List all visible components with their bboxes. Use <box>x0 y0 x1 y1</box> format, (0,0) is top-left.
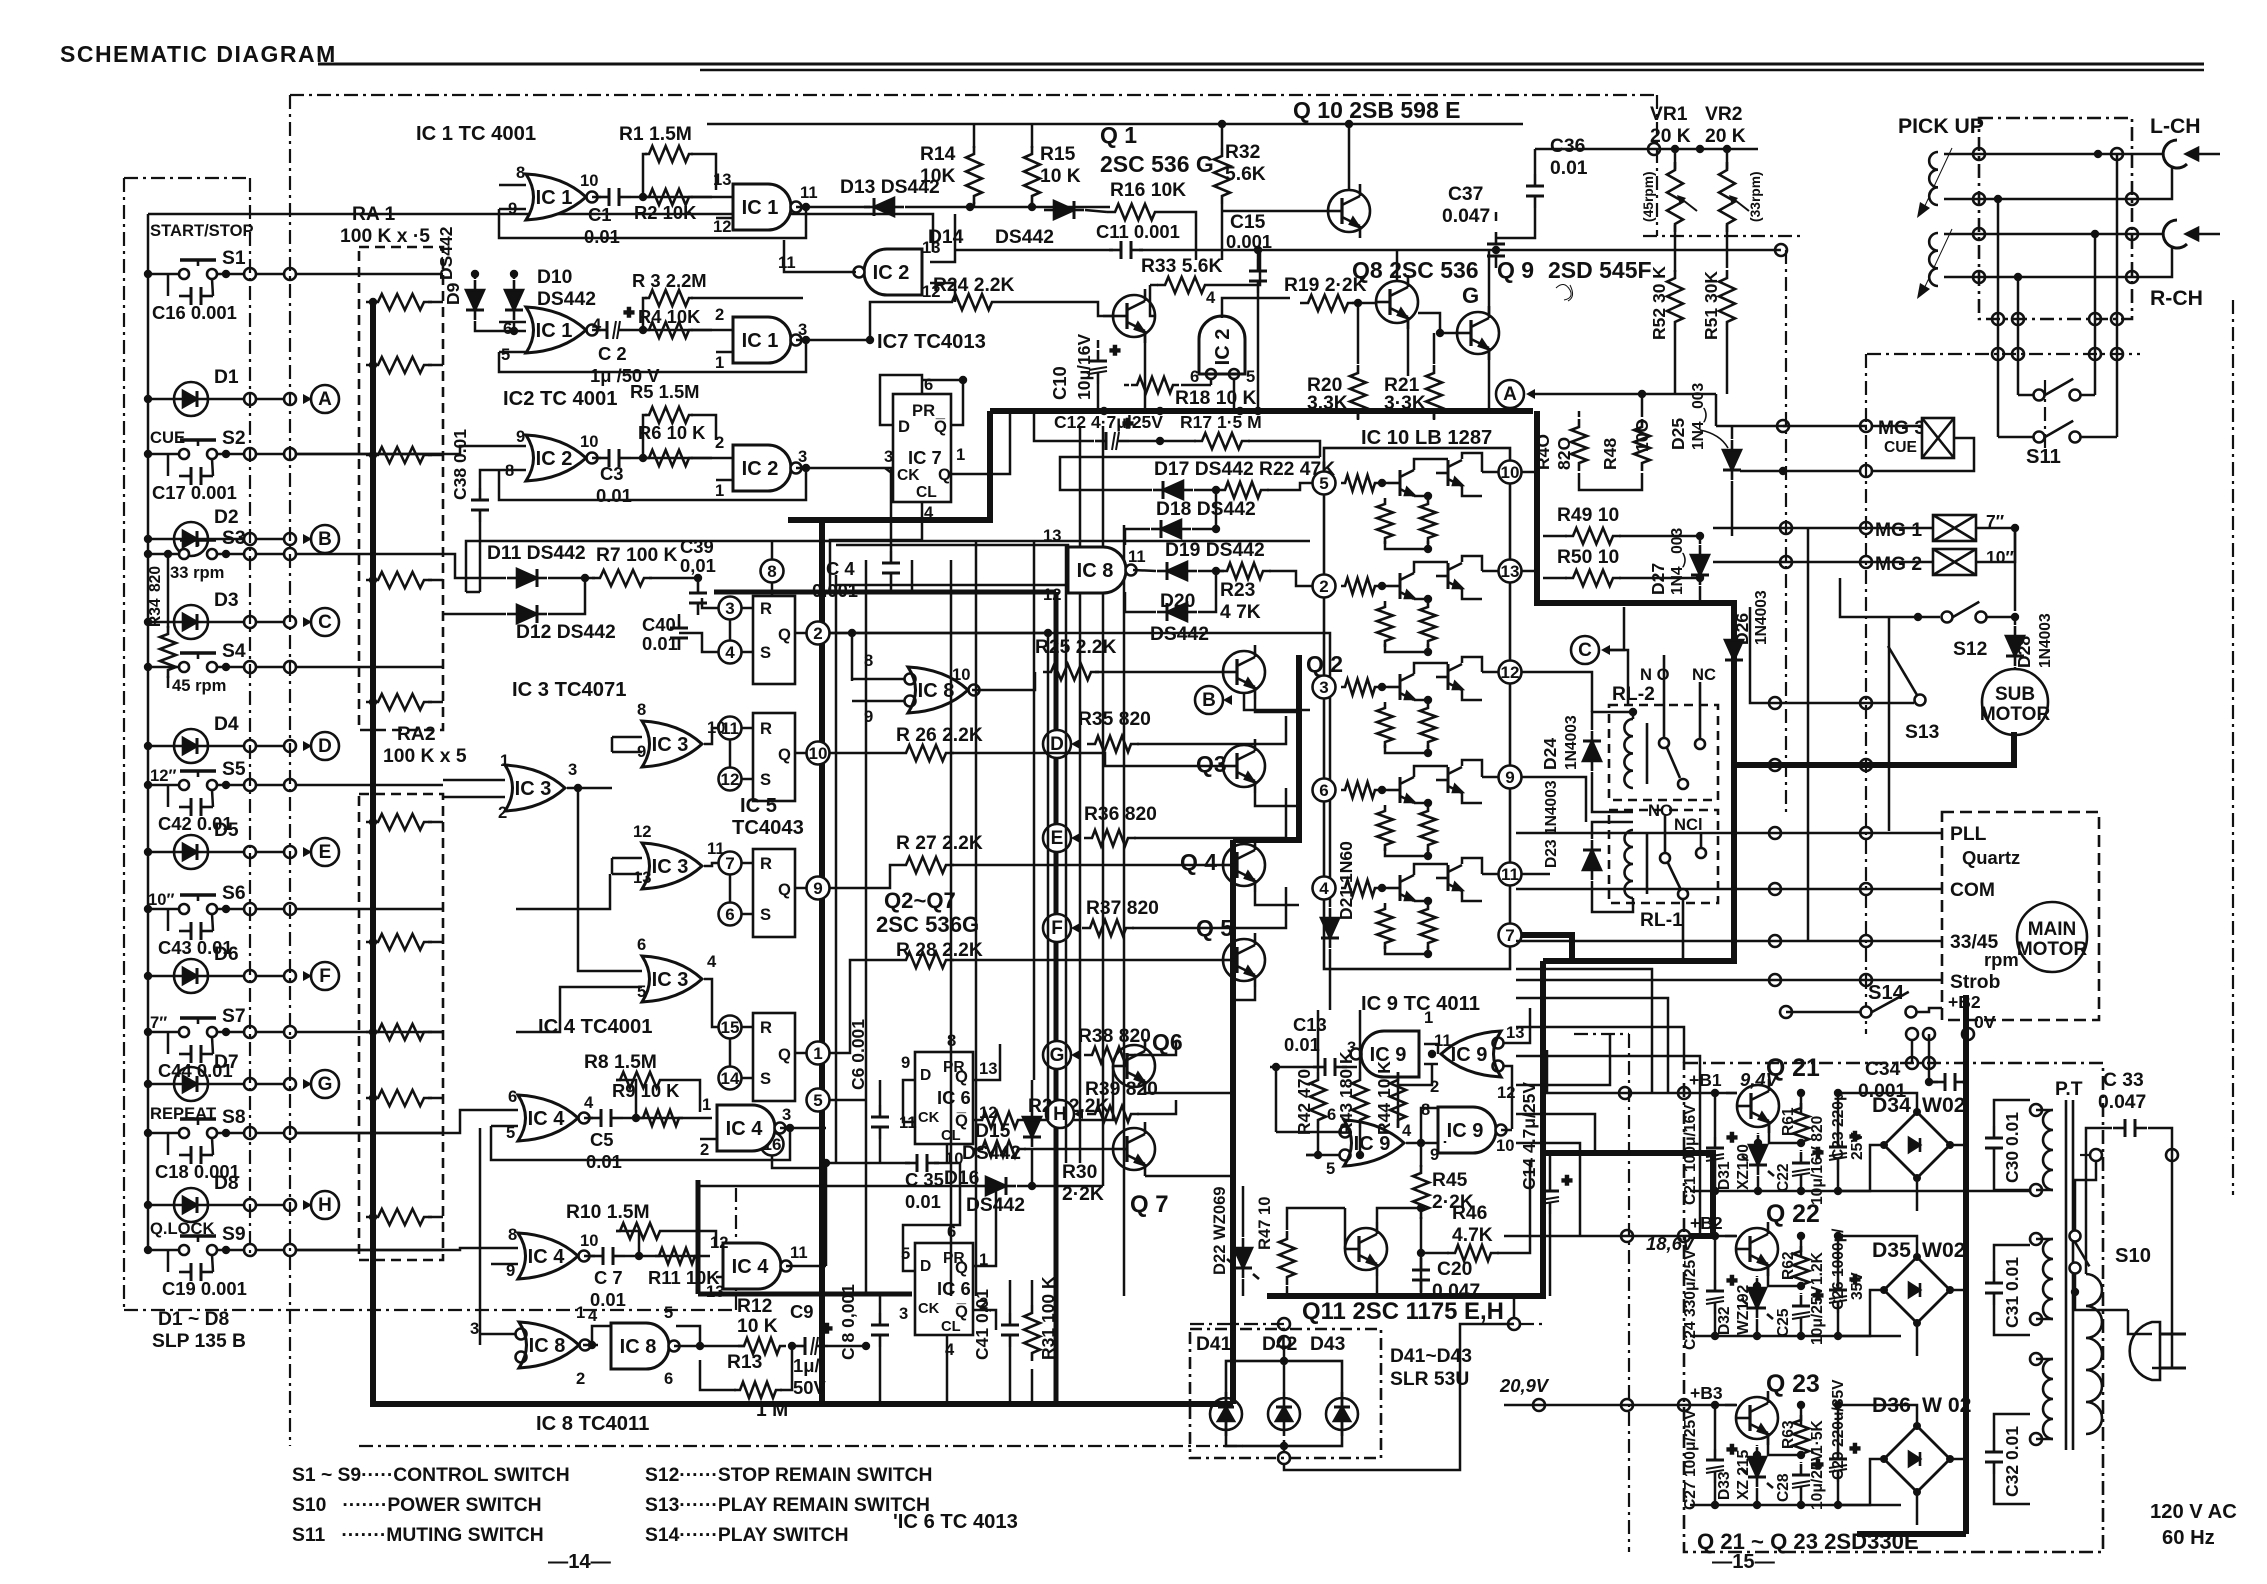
resistor R49 10 <box>1565 528 1621 544</box>
capacitor C37 0.047 <box>1487 232 1505 268</box>
svg-text:S7: S7 <box>222 1006 246 1027</box>
wire <box>1756 1276 1759 1277</box>
wire <box>1134 788 1286 838</box>
svg-text:DS442: DS442 <box>537 289 596 310</box>
wire <box>256 1031 284 1034</box>
wire from IC5 pin1 <box>830 960 898 1053</box>
wire <box>296 1249 443 1252</box>
svg-text:6: 6 <box>508 1087 517 1106</box>
wire (Q3 emitter) <box>1255 793 1299 806</box>
resistor R15 10K <box>1024 146 1040 204</box>
svg-text:10μ/16V 820: 10μ/16V 820 <box>1809 1115 1826 1205</box>
wire <box>1017 1185 1032 1188</box>
svg-text:3: 3 <box>1319 678 1328 697</box>
NAND gate IC1b <box>733 184 802 230</box>
pickup coil L <box>1929 152 1938 205</box>
thick bus (vertical) <box>819 520 825 1404</box>
svg-text:D9: D9 <box>443 282 463 305</box>
svg-text:CL: CL <box>941 1319 961 1335</box>
svg-text:6: 6 <box>1190 367 1199 386</box>
zener D31 <box>1749 1135 1767 1175</box>
wire <box>513 274 516 279</box>
switch S13 <box>1888 646 1926 706</box>
svg-text:D3: D3 <box>214 590 239 611</box>
diode D7 <box>166 1067 216 1101</box>
NOR gate IC8c <box>519 1322 591 1368</box>
svg-text:C5: C5 <box>590 1129 614 1150</box>
wire (vertical) <box>975 540 978 1296</box>
wire <box>1198 571 1216 612</box>
svg-text:10μ/25V: 10μ/25V <box>1809 1450 1826 1510</box>
svg-text:C27 100μ/25V: C27 100μ/25V <box>1682 1409 1699 1510</box>
wire <box>1248 441 1320 457</box>
wire <box>1406 1142 1445 1145</box>
NAND gate IC9d <box>1438 1107 1507 1153</box>
LED D43 <box>1326 1392 1358 1436</box>
svg-text:COM: COM <box>1950 880 1995 901</box>
svg-text:R31 100 K: R31 100 K <box>1038 1276 1058 1360</box>
wire <box>216 851 245 854</box>
svg-text:F: F <box>1051 918 1063 939</box>
svg-text:12: 12 <box>1501 663 1520 682</box>
resistor R4 10K <box>645 322 693 338</box>
wire <box>216 621 245 624</box>
wire <box>480 470 499 488</box>
wire <box>212 1037 213 1054</box>
svg-text:15: 15 <box>721 1018 740 1037</box>
wire (transformer tap) <box>2036 1189 2053 1192</box>
resistor R10 1.5M <box>616 1223 664 1239</box>
svg-text:G: G <box>318 1074 333 1095</box>
wire <box>1714 1483 1717 1505</box>
wire <box>479 522 482 592</box>
svg-text:XZ100: XZ100 <box>1735 1144 1752 1190</box>
svg-text:R12: R12 <box>737 1296 772 1317</box>
wire <box>1407 321 1410 376</box>
boundary <box>1574 1033 1629 1035</box>
wire <box>704 979 718 1027</box>
svg-text:C20: C20 <box>1437 1259 1472 1280</box>
wire <box>148 398 166 401</box>
junction <box>244 533 256 545</box>
junction <box>284 1026 296 1038</box>
junction <box>2012 348 2024 360</box>
svg-text:—15—: —15— <box>1712 1551 1776 1573</box>
svg-text:R6 10 K: R6 10 K <box>638 422 706 443</box>
wire <box>217 666 245 669</box>
wire <box>217 453 245 456</box>
svg-text:CK: CK <box>918 1301 940 1317</box>
wire <box>1221 124 1224 148</box>
wire <box>1592 822 1633 839</box>
jack R-CH <box>2163 220 2220 248</box>
NOR gate IC4a <box>518 1095 590 1141</box>
svg-text:8: 8 <box>767 562 776 581</box>
wire pin9 <box>499 208 526 211</box>
svg-text:1N4003: 1N4003 <box>2037 613 2054 668</box>
junction <box>1678 1399 1690 1411</box>
svg-text:Q: Q <box>778 745 791 764</box>
resistor RA1-3 100K <box>370 447 432 463</box>
wire <box>1726 225 1729 268</box>
boundary right <box>2232 300 2234 1195</box>
diode D28 1N4003 <box>2006 626 2024 666</box>
boundary <box>1785 250 1787 812</box>
svg-text:D18 DS442: D18 DS442 <box>1156 499 1256 520</box>
wire <box>691 154 716 190</box>
relay contact RL-2 NC <box>1678 682 1705 789</box>
svg-text:11: 11 <box>1128 547 1146 566</box>
wire (Q5 emitter) <box>1233 987 1255 1000</box>
resistor R50 10 <box>1565 570 1621 586</box>
wire (+B rail) <box>1690 1404 1737 1407</box>
svg-text:1: 1 <box>813 1044 822 1063</box>
resistor (IC10 internal) <box>1377 805 1393 851</box>
svg-text:D8: D8 <box>214 1173 239 1194</box>
wire <box>1382 686 1388 689</box>
wire <box>584 1255 595 1258</box>
svg-text:S: S <box>760 905 771 924</box>
svg-text:Q̅: Q̅ <box>934 417 947 436</box>
switch column rail <box>147 214 150 1250</box>
wire <box>256 1083 284 1086</box>
svg-text:+: + <box>624 303 634 322</box>
wire (cell bottom) <box>1690 1190 1901 1193</box>
wire <box>148 975 166 978</box>
diode D25 1N4003 <box>1723 440 1741 480</box>
svg-text:IC 3 TC4071: IC 3 TC4071 <box>512 679 626 701</box>
wire <box>1137 716 1286 744</box>
wire <box>1031 1080 1034 1106</box>
svg-text:7: 7 <box>1505 926 1514 945</box>
wire <box>1060 457 1320 490</box>
junction <box>1777 420 1789 432</box>
thick bus <box>1233 655 1299 840</box>
wire <box>795 752 807 755</box>
wire IC6b Q <box>973 1186 996 1266</box>
wire <box>1194 489 1219 492</box>
node B <box>1195 686 1223 714</box>
resistor R37 820 <box>1082 920 1134 936</box>
svg-text:IC 6: IC 6 <box>937 1278 971 1299</box>
wire <box>1420 1143 1423 1167</box>
IC10 pin 12 <box>1499 661 1522 684</box>
svg-text:R48: R48 <box>1600 438 1620 470</box>
svg-text:R: R <box>760 599 772 618</box>
wire <box>1385 848 1428 856</box>
boundary (dash-dot) <box>124 1309 736 1311</box>
svg-text:0.01: 0.01 <box>1550 158 1588 179</box>
junction <box>244 268 256 280</box>
svg-text:ʹIC 6 TC 4013: ʹIC 6 TC 4013 <box>893 1511 1018 1533</box>
wire <box>1398 1064 1432 1128</box>
wire <box>2128 1310 2152 1334</box>
resistor (IC10 internal) <box>1341 578 1379 594</box>
svg-text:R8 1.5M: R8 1.5M <box>584 1052 657 1073</box>
junction <box>1780 522 1792 534</box>
svg-text:S4: S4 <box>222 641 246 662</box>
svg-text:C31 0.01: C31 0.01 <box>2002 1257 2022 1328</box>
wire <box>1800 1293 1803 1294</box>
wire <box>466 591 480 594</box>
svg-text:R15: R15 <box>1040 144 1076 165</box>
wire <box>1342 1066 1357 1069</box>
switch S9 <box>179 1236 217 1255</box>
junction <box>1769 697 1781 709</box>
LED frame <box>1226 1361 1342 1446</box>
wire <box>1418 313 1457 333</box>
resistor R45 2.2K <box>1413 1165 1429 1219</box>
capacitor C7 0.01 <box>591 1247 625 1265</box>
wire <box>973 202 976 207</box>
wire <box>729 874 732 903</box>
svg-text:C 8 0,001: C 8 0,001 <box>838 1284 858 1360</box>
resistor (IC10 internal) <box>1420 702 1436 748</box>
svg-text:D22 WZ069: D22 WZ069 <box>1210 1186 1229 1275</box>
svg-text:D25: D25 <box>1668 418 1688 450</box>
wire <box>1414 598 1428 601</box>
resistor array RA2 box <box>359 794 443 1260</box>
wire <box>612 857 642 860</box>
wire <box>1838 1459 1884 1505</box>
wire <box>1800 1236 1803 1256</box>
wire <box>930 214 955 262</box>
wire <box>212 1138 213 1155</box>
junction <box>1860 556 1872 568</box>
svg-text:C1: C1 <box>588 204 612 225</box>
resistor R62 <box>1793 1246 1809 1290</box>
transformer primary <box>2086 1274 2102 1434</box>
wire <box>612 751 642 754</box>
svg-text:Q6: Q6 <box>1152 1029 1183 1055</box>
junction <box>2111 313 2123 325</box>
zener diode D22 WZ069 <box>1234 1238 1252 1278</box>
transformer secondary 3 <box>2043 1359 2053 1439</box>
wire <box>1286 1286 1289 1296</box>
wire <box>955 249 1113 252</box>
wire <box>2152 1310 2172 1368</box>
svg-text:SLR 53U: SLR 53U <box>1390 1369 1469 1390</box>
svg-text:C29 220u/35V: C29 220u/35V <box>1830 1379 1847 1480</box>
switch S14 <box>1861 992 1917 1018</box>
junction <box>244 616 256 628</box>
wire <box>443 796 505 799</box>
wire <box>716 1117 719 1120</box>
wire <box>852 678 904 681</box>
svg-text:2: 2 <box>715 305 724 324</box>
node C <box>1571 636 1599 664</box>
wire <box>479 1128 482 1345</box>
wire <box>428 701 443 704</box>
svg-text:3·3K: 3·3K <box>1384 393 1426 414</box>
svg-text:R30: R30 <box>1062 1162 1097 1183</box>
wire (staircase) <box>1516 1114 1595 1153</box>
wire <box>1482 873 1498 876</box>
svg-text:R43 180 K: R43 180 K <box>1336 1051 1356 1135</box>
wire <box>741 651 753 654</box>
wire <box>795 1052 807 1055</box>
svg-text:R32: R32 <box>1225 142 1260 163</box>
wire <box>1433 333 1436 364</box>
wire <box>1414 562 1448 573</box>
wire <box>167 785 170 807</box>
svg-text:2·2K: 2·2K <box>1062 1184 1104 1205</box>
svg-text:60 Hz: 60 Hz <box>2162 1527 2215 1549</box>
wire <box>1994 1160 2030 1190</box>
svg-text:D35: D35 <box>1872 1239 1911 1262</box>
wire to IC6 D <box>903 1163 960 1271</box>
IC10 pin 5 <box>1313 472 1336 495</box>
svg-text:Q: Q <box>955 1067 968 1086</box>
wire <box>216 745 245 748</box>
wire <box>704 863 718 866</box>
latch IC5 (R/S/Q) pins 7/6/9 <box>753 849 795 937</box>
wire <box>1928 1034 1931 1082</box>
junction <box>244 1078 256 1090</box>
thick bus <box>714 590 1056 595</box>
control panel boundary <box>124 177 250 179</box>
diode D1 <box>166 382 216 416</box>
capacitor C12 4.7u/25V <box>1095 414 1133 450</box>
wire <box>1800 1498 1803 1505</box>
wire <box>780 1127 826 1130</box>
svg-text:D5: D5 <box>214 820 239 841</box>
svg-text:13: 13 <box>713 170 731 189</box>
wire <box>1125 592 1156 612</box>
svg-text:+B2: +B2 <box>1690 1213 1723 1233</box>
svg-text:4: 4 <box>588 1306 598 1325</box>
wire <box>491 1125 518 1128</box>
wire <box>167 676 170 688</box>
wire <box>1911 1040 1914 1063</box>
wire <box>1950 1289 1966 1292</box>
wire <box>1222 298 1290 318</box>
svg-text:IC 8: IC 8 <box>918 680 955 702</box>
svg-text:D: D <box>898 417 910 436</box>
svg-text:13: 13 <box>633 868 651 887</box>
wire <box>148 273 179 276</box>
wire <box>256 398 284 401</box>
wire <box>879 1347 882 1404</box>
junction <box>1973 228 1985 240</box>
resistor R22 47K <box>1217 482 1269 498</box>
wire <box>825 1163 828 1266</box>
wire <box>366 1216 373 1219</box>
wire <box>499 321 526 324</box>
wire <box>1424 1063 1438 1066</box>
wire <box>1462 486 1482 496</box>
svg-text:0.047: 0.047 <box>2098 1092 2146 1113</box>
resistor RA1-5 100K <box>370 694 432 710</box>
svg-text:R: R <box>760 1018 772 1037</box>
junction <box>1860 827 1872 839</box>
resistor R19 2.2K <box>1300 295 1356 311</box>
svg-text:1N4‿003: 1N4‿003 <box>1690 383 1708 450</box>
node A <box>303 394 312 404</box>
wire <box>1085 210 1107 212</box>
svg-text:R37 820: R37 820 <box>1086 898 1159 919</box>
svg-text:PLL: PLL <box>1950 824 1987 845</box>
wire <box>256 745 284 748</box>
NAND gate IC4d <box>723 1243 792 1289</box>
wire <box>256 666 284 669</box>
resistor R32 5.6K <box>1214 148 1230 204</box>
svg-text:2SC 536 G: 2SC 536 G <box>1100 151 1214 177</box>
junction <box>244 1026 256 1038</box>
wire <box>697 578 700 581</box>
wire IC7 Qbar <box>922 380 963 425</box>
resistor (IC10 internal) <box>1341 880 1379 896</box>
wire <box>1283 1440 1286 1452</box>
resistor R7 100K <box>592 570 652 586</box>
wire <box>852 700 904 703</box>
wire <box>1222 210 1328 213</box>
wire <box>1385 541 1428 549</box>
svg-text:W02: W02 <box>1922 1239 1966 1262</box>
svg-text:IC 1: IC 1 <box>536 320 573 342</box>
wire <box>499 351 526 354</box>
wire <box>516 987 612 1032</box>
wire <box>691 297 803 300</box>
wire <box>1496 208 1535 238</box>
relay RL-2 box <box>1609 705 1718 800</box>
wire <box>148 1204 166 1207</box>
resistor (IC10 internal) <box>1377 498 1393 544</box>
resistor R29 2.2K <box>974 1112 1026 1128</box>
svg-text:E: E <box>319 842 332 863</box>
svg-text:C: C <box>1578 640 1592 661</box>
wire <box>1731 481 1734 536</box>
node G <box>1043 1041 1071 1069</box>
wire <box>167 909 170 931</box>
wire <box>1421 1252 1449 1255</box>
wire <box>212 790 213 807</box>
svg-text:L-CH: L-CH <box>2150 115 2201 138</box>
svg-text:IC 6: IC 6 <box>937 1087 971 1108</box>
svg-text:S3: S3 <box>222 528 246 549</box>
transistor (IC10 darlington 1) <box>1388 674 1414 700</box>
wire <box>729 1038 732 1067</box>
wire <box>1608 650 1628 705</box>
wire <box>428 821 443 824</box>
wire <box>296 1132 443 1135</box>
capacitor C27 <box>1706 1440 1737 1483</box>
wire <box>1357 411 1360 420</box>
wire <box>1838 1093 1917 1112</box>
wire <box>1495 212 1498 221</box>
junction <box>244 779 256 791</box>
svg-text:P.T: P.T <box>2055 1079 2083 1100</box>
wire <box>296 453 443 456</box>
wire <box>216 975 245 978</box>
wire <box>830 752 898 755</box>
svg-text:SUB: SUB <box>1995 684 2035 705</box>
wire <box>217 553 245 556</box>
potentiometer VR1 20K <box>1667 162 1683 232</box>
svg-text:C28: C28 <box>1775 1473 1792 1502</box>
thick bus (sub motor) <box>1734 732 2014 765</box>
junction <box>1678 1087 1690 1099</box>
thick bus <box>788 411 990 520</box>
capacitor C39 0.01 <box>689 581 707 615</box>
junction <box>1621 1399 1633 1411</box>
switch S3 <box>179 540 217 559</box>
boundary <box>1520 1323 1543 1325</box>
wire <box>1800 1150 1803 1151</box>
NAND gate IC4c <box>717 1105 786 1151</box>
wire <box>428 579 443 582</box>
svg-text:1: 1 <box>500 751 509 770</box>
